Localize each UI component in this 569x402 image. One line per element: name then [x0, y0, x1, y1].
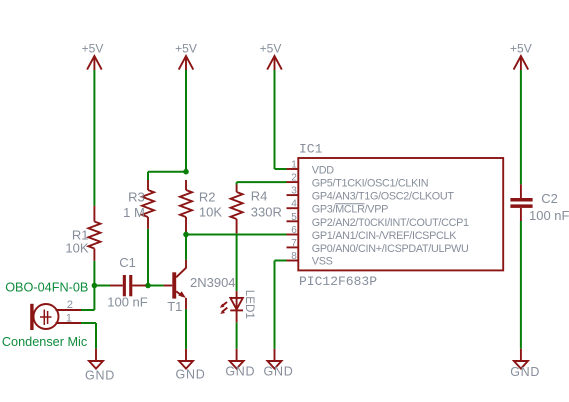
svg-text:1 M: 1 M [123, 205, 145, 220]
svg-text:GP1/AN1/CIN-/VREF/ICSPCLK: GP1/AN1/CIN-/VREF/ICSPCLK [312, 230, 457, 242]
svg-text:+5V: +5V [510, 41, 532, 55]
svg-text:+5V: +5V [175, 41, 197, 55]
svg-text:6: 6 [291, 225, 297, 236]
svg-text:2: 2 [291, 173, 297, 184]
svg-text:VSS: VSS [312, 256, 333, 268]
svg-text:+5V: +5V [82, 41, 104, 55]
svg-text:7: 7 [291, 238, 297, 249]
svg-text:GP5/T1CKI/OSC1/CLKIN: GP5/T1CKI/OSC1/CLKIN [312, 178, 428, 190]
svg-text:2: 2 [67, 299, 73, 311]
svg-text:8: 8 [291, 251, 297, 262]
svg-text:1: 1 [291, 160, 297, 171]
svg-text:GP0/AN0/CIN+/ICSPDAT/ULPWU: GP0/AN0/CIN+/ICSPDAT/ULPWU [312, 243, 469, 255]
svg-text:GND: GND [85, 369, 115, 383]
svg-text:10K: 10K [199, 205, 222, 220]
svg-text:1: 1 [66, 313, 72, 325]
svg-text:C2: C2 [541, 191, 558, 206]
svg-text:100 nF: 100 nF [529, 208, 569, 223]
svg-text:R2: R2 [199, 190, 216, 205]
svg-text:100 nF: 100 nF [107, 294, 148, 309]
svg-text:VDD: VDD [312, 165, 334, 177]
svg-text:IC1: IC1 [299, 142, 323, 157]
svg-text:Condenser Mic: Condenser Mic [2, 335, 88, 349]
svg-text:GND: GND [510, 365, 540, 379]
svg-text:5: 5 [291, 212, 297, 223]
svg-text:330R: 330R [251, 204, 282, 219]
svg-text:C1: C1 [119, 255, 136, 270]
svg-text:PIC12F683P: PIC12F683P [299, 274, 377, 289]
svg-text:GP3/MCLR/VPP: GP3/MCLR/VPP [312, 204, 388, 216]
svg-text:OBO-04FN-0B: OBO-04FN-0B [5, 280, 88, 294]
svg-text:T1: T1 [167, 299, 182, 314]
svg-text:3: 3 [291, 186, 297, 197]
svg-text:GP4/AN3/T1G/OSC2/CLKOUT: GP4/AN3/T1G/OSC2/CLKOUT [312, 191, 455, 203]
svg-text:10K: 10K [65, 241, 88, 256]
svg-text:2N3904: 2N3904 [190, 275, 236, 290]
svg-text:R3: R3 [128, 190, 145, 205]
svg-text:+5V: +5V [260, 41, 282, 55]
svg-text:GND: GND [225, 365, 255, 379]
svg-text:GND: GND [176, 367, 206, 381]
svg-text:GND: GND [264, 365, 294, 379]
svg-text:GP2/AN2/T0CKI/INT/COUT/CCP1: GP2/AN2/T0CKI/INT/COUT/CCP1 [312, 217, 469, 229]
svg-text:R4: R4 [251, 189, 268, 204]
svg-text:4: 4 [291, 199, 297, 210]
svg-text:LED1: LED1 [243, 290, 256, 319]
